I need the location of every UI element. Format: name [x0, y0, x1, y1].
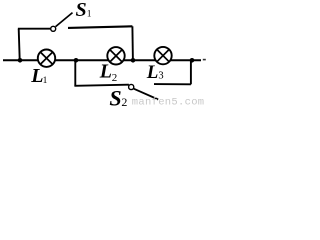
wire S1 branch right vertical [131, 26, 134, 60]
svg-text:3: 3 [158, 71, 163, 82]
wire S1 branch top left horizontal [18, 28, 51, 30]
lamp L3 circle [154, 47, 171, 64]
wire S2 branch right vertical [190, 60, 192, 84]
lamp L1 cross [40, 52, 52, 64]
svg-text:L: L [99, 60, 112, 82]
wire S2 branch bottom right horizontal [154, 83, 191, 85]
wire S1 branch left vertical [19, 29, 20, 60]
node junction D (S2 branch right) [190, 58, 195, 63]
node junction A (S1 branch left) [18, 58, 23, 63]
svg-text:2: 2 [112, 72, 118, 84]
lamp L2 circle [107, 47, 124, 64]
lamp L2 cross [110, 50, 122, 62]
wire main bus right end tick [203, 59, 206, 61]
switch S1 blade [56, 13, 73, 27]
wire S1 branch top right horizontal [68, 26, 132, 28]
wire main bus [3, 59, 201, 61]
node junction C (S1 branch right) [131, 58, 136, 63]
switch S2 contact circle [129, 84, 134, 89]
wire S2 branch left vertical [74, 60, 76, 86]
wire S2 branch bottom left horizontal [74, 85, 128, 86]
node junction B (S2 branch left) [74, 58, 79, 63]
svg-text:2: 2 [121, 95, 127, 107]
svg-text:manfen5.com: manfen5.com [132, 96, 205, 107]
lamp L1 circle [38, 50, 55, 67]
svg-text:S: S [76, 0, 87, 21]
switch S1 contact circle [51, 26, 56, 31]
svg-text:L: L [30, 65, 43, 87]
svg-text:L: L [146, 62, 159, 83]
svg-text:S: S [109, 85, 121, 107]
switch S2 blade [133, 89, 158, 100]
svg-text:1: 1 [87, 10, 92, 20]
svg-text:1: 1 [43, 76, 48, 86]
lamp L3 cross [157, 49, 169, 61]
